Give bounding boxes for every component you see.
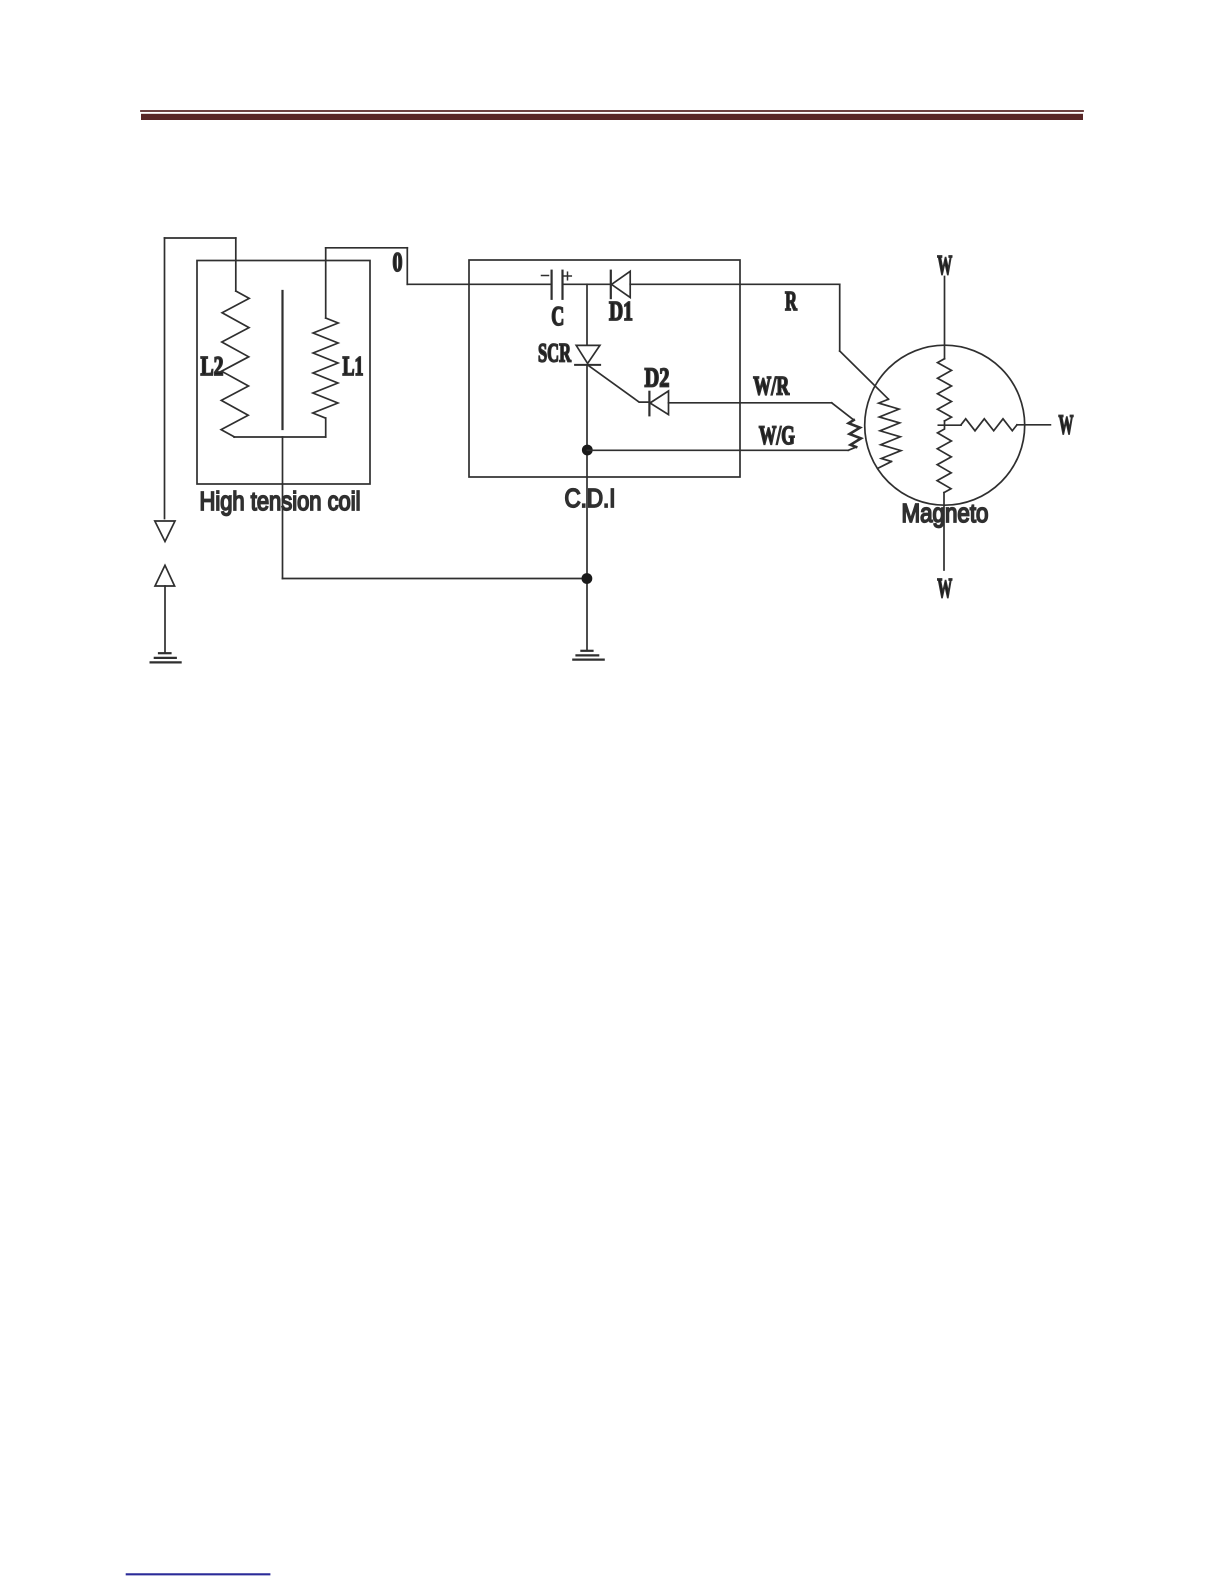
pickup trigger coil: [849, 420, 861, 447]
wire centre tap to CDI ground node: [283, 578, 587, 580]
svg-text:C: C: [551, 301, 564, 331]
core bar: [281, 291, 283, 429]
CDI box: [469, 260, 740, 477]
svg-text:C.D.I: C.D.I: [565, 485, 616, 513]
svg-text:0: 0: [393, 247, 403, 277]
capacitor minus sign: [542, 275, 549, 277]
charging coil lower winding: [937, 425, 951, 492]
wire spark gap to ground: [164, 586, 166, 653]
wire D1 to R corner: [630, 283, 840, 285]
wire W/G horizontal: [587, 449, 848, 451]
spark gap upper electrode (down triangle): [155, 521, 175, 542]
wire D2 to W/R bend: [669, 402, 832, 404]
svg-text:D1: D1: [609, 296, 633, 326]
wire SCR gate diagonal: [588, 365, 650, 402]
svg-text:L1: L1: [343, 351, 364, 381]
svg-text:SCR: SCR: [538, 339, 571, 368]
wire centre tap of charging coil: [938, 421, 962, 425]
wire centre tap down: [282, 437, 284, 579]
svg-text:W: W: [937, 573, 952, 603]
diode D1 cathode bar: [610, 271, 612, 298]
svg-text:L2: L2: [201, 351, 224, 381]
thyristor SCR triangle: [576, 345, 600, 363]
svg-text:R: R: [785, 286, 797, 316]
wire L2 top drop: [235, 238, 237, 291]
inductor L2 winding: [221, 291, 249, 437]
ground CDI: [573, 651, 603, 660]
wire SCR anode: [586, 284, 588, 345]
charging coil upper winding: [938, 359, 952, 421]
diode D1 triangle: [612, 271, 631, 297]
svg-text:D2: D2: [645, 363, 670, 393]
header rule thin line: [141, 110, 1083, 112]
wire magneto top lead: [944, 277, 946, 359]
svg-text:W/G: W/G: [759, 421, 795, 450]
inductor L1 winding: [313, 318, 338, 418]
header rule thick bar: [141, 114, 1083, 120]
thyristor SCR cathode bar: [575, 364, 600, 366]
wire left vertical: [164, 238, 166, 519]
wire top-left horizontal: [165, 237, 236, 239]
wire R diagonal into magneto: [840, 351, 889, 399]
footer link line: [127, 1573, 269, 1575]
source coil winding (left): [879, 399, 901, 461]
wire W/R diagonal to pickup: [832, 403, 854, 420]
wire R corner drop: [839, 284, 841, 351]
svg-text:High tension coil: High tension coil: [200, 488, 361, 516]
junction node ground bus: [582, 573, 593, 584]
wire L1 top riser: [325, 248, 327, 318]
diode D2 cathode bar: [648, 392, 650, 416]
magneto body circle: [865, 345, 1025, 505]
wire node 0 into CDI: [407, 283, 551, 285]
junction node CDI: [582, 445, 593, 456]
wire right lead: [1017, 424, 1050, 426]
spark gap lower electrode (up triangle): [155, 565, 175, 586]
wire L1 bottom stub: [325, 418, 327, 437]
diode D2 triangle: [650, 391, 669, 415]
wire source coil tail: [878, 462, 892, 469]
high tension coil box: [197, 261, 370, 485]
svg-text:Magneto: Magneto: [902, 500, 989, 528]
ground left: [151, 653, 181, 662]
lighting coil winding (right): [961, 419, 1017, 431]
wire L1 to node 0 horizontal: [326, 247, 408, 249]
wire SCR cathode down: [586, 365, 588, 651]
svg-text:W/R: W/R: [753, 372, 789, 401]
wire W/G diagonal to pickup: [848, 447, 856, 450]
wire magneto bottom lead: [943, 493, 945, 570]
svg-text:W: W: [937, 250, 952, 280]
capacitor C plates: [552, 271, 563, 299]
wire node 0 drop: [406, 248, 408, 284]
wire capacitor to D1: [563, 283, 611, 285]
svg-text:W: W: [1059, 410, 1074, 440]
capacitor plus sign: [564, 272, 572, 280]
wire coil bottom bus: [234, 436, 326, 438]
